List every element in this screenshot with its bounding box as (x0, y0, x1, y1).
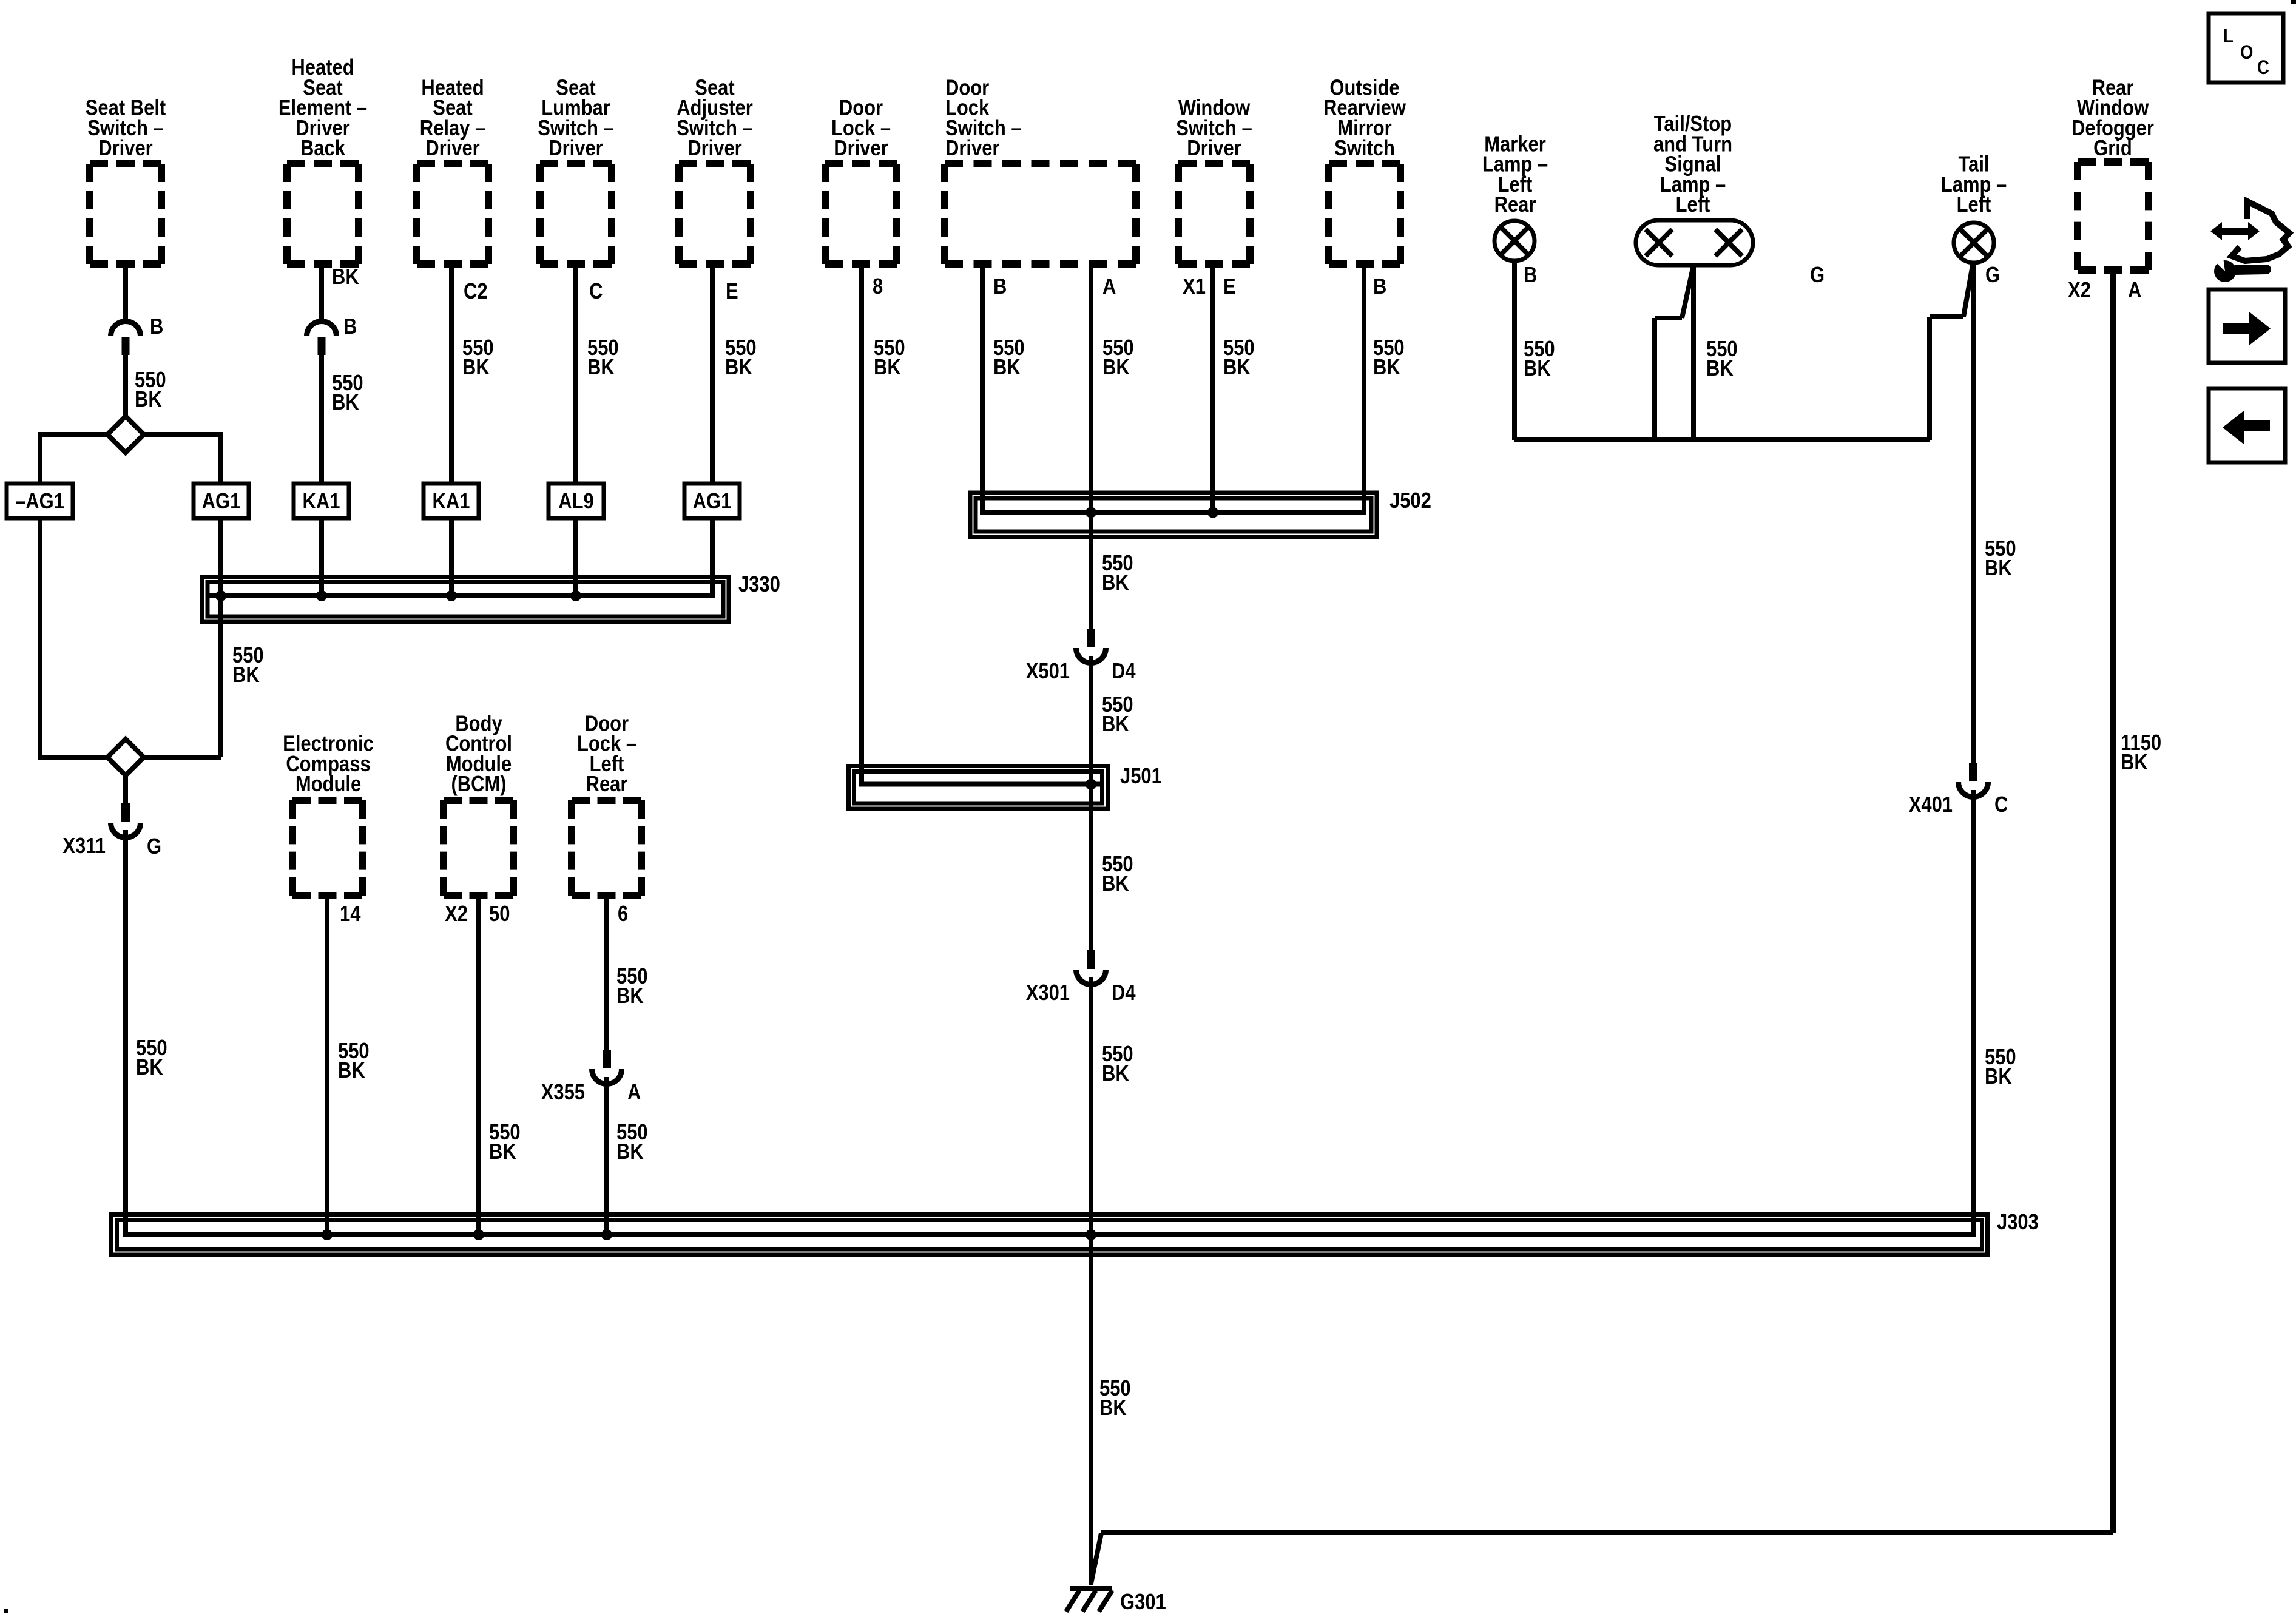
svg-text:Rear: Rear (586, 772, 628, 797)
svg-text:J501: J501 (1120, 765, 1162, 789)
svg-text:E: E (1223, 275, 1236, 299)
svg-text:X2: X2 (445, 902, 468, 927)
svg-text:Driver: Driver (834, 137, 888, 161)
legend LOC box (2209, 13, 2283, 83)
svg-text:Driver: Driver (425, 137, 479, 161)
wire: door lock left rear pin 6 down to X355 (604, 896, 609, 1051)
component box: Door Lock - Left Rear (572, 797, 641, 804)
svg-text:Driver: Driver (549, 137, 603, 161)
component box: Door Lock Switch - Driver (945, 160, 1136, 167)
svg-text:BK: BK (462, 356, 490, 380)
wire: J330 down to diamond 2 row (218, 596, 223, 757)
svg-text:BK: BK (1102, 356, 1130, 380)
svg-text:KA1: KA1 (303, 490, 340, 514)
wire: X501 to J501 (1089, 656, 1093, 951)
wire: seat lumbar switch pin C to AL9 (573, 264, 578, 482)
wire: right horizontal into diamond 2 (144, 755, 221, 760)
junction dot J330/AL9 (570, 590, 581, 601)
corner at left loop (38, 755, 42, 760)
svg-text:Switch: Switch (1334, 137, 1395, 161)
net code box KA1 (heated seat element) (294, 484, 349, 518)
component box: Body Control Module (BCM) (444, 797, 513, 804)
svg-text:–AG1: –AG1 (15, 490, 64, 514)
svg-text:Grid: Grid (2093, 137, 2132, 161)
wire: ground rail diagonal jog (1091, 1533, 1101, 1584)
splice pack J502 (970, 493, 1377, 537)
wire: diamond 1 right to AG1 (144, 434, 221, 482)
component box: Door Lock - Driver (825, 160, 897, 167)
svg-text:BK: BK (332, 391, 359, 415)
wire: heated seat element pin BK drop (319, 264, 324, 322)
connector X301 (1087, 950, 1095, 969)
svg-text:E: E (726, 280, 738, 304)
legend harness icon with double arrow and wrench (2210, 222, 2222, 240)
junction dot J501/A wire (1086, 779, 1096, 790)
svg-text:KA1: KA1 (433, 490, 470, 514)
svg-text:AL9: AL9 (558, 490, 593, 514)
page mark top right corner (2291, 0, 2296, 4)
splice diamond node 1 (107, 416, 144, 453)
svg-text:Module: Module (295, 772, 361, 797)
svg-text:BK: BK (616, 1140, 644, 1164)
svg-text:BK: BK (1985, 556, 2012, 581)
component box: Heated Seat Element - Driver Back (287, 160, 359, 167)
svg-text:Left: Left (1957, 193, 1991, 217)
svg-text:B: B (1524, 263, 1537, 288)
component box: Outside Rearview Mirror Switch (1329, 160, 1400, 167)
component box: Seat Adjuster Switch - Driver (679, 160, 751, 167)
wire: bottom ground rail to defogger wire (1101, 1530, 2113, 1535)
wire: heated seat relay pin C2 to KA1 (449, 264, 454, 482)
legend forward arrow box (2209, 289, 2285, 363)
svg-text:(BCM): (BCM) (451, 772, 506, 797)
svg-text:J303: J303 (1997, 1210, 2039, 1235)
net code box AG1 (seat adjuster) (684, 484, 740, 518)
connector X501 (1087, 629, 1095, 647)
component box: Window Switch - Driver (1178, 160, 1250, 167)
svg-text:B: B (343, 315, 357, 339)
svg-text:A: A (1102, 275, 1116, 299)
wire: -AG1 down to diamond 2 row (38, 518, 42, 757)
J303 bus (126, 790, 1973, 1235)
lamp: Tail/Stop and Turn Signal Lamp - Left (1636, 220, 1753, 265)
svg-text:BK: BK (874, 356, 901, 380)
svg-text:G: G (1810, 263, 1825, 288)
wire: door lock switch pin B down to J502 bus (982, 264, 1364, 513)
connector X401 (1969, 763, 1977, 781)
junction dot J330/KA1b (446, 590, 457, 601)
connector: in-line on seat belt wire (111, 322, 141, 337)
svg-text:BK: BK (1102, 1062, 1129, 1086)
component box: Heated Seat Relay - Driver (417, 160, 488, 167)
component box: Seat Belt Switch - Driver (90, 160, 161, 167)
component box: Rear Window Defogger Grid (2078, 158, 2149, 166)
svg-text:A: A (2128, 279, 2141, 303)
svg-text:BK: BK (489, 1140, 516, 1164)
svg-text:C: C (1994, 793, 2008, 817)
svg-text:X311: X311 (62, 834, 106, 859)
svg-text:BK: BK (1223, 356, 1251, 380)
wire: seat adjuster switch pin E to AG1 (710, 264, 715, 482)
wire: seat belt switch pin B drop (123, 264, 128, 322)
component box: Electronic Compass Module (292, 797, 362, 804)
svg-text:Rear: Rear (1494, 193, 1536, 217)
svg-text:BK: BK (135, 388, 162, 412)
splice pack J330 (202, 577, 729, 623)
wire: tail lamp G drop to X401 (1971, 263, 1976, 763)
svg-text:8: 8 (873, 275, 883, 299)
wire: diamond 2 down to X311 (123, 775, 128, 803)
svg-text:BK: BK (338, 1059, 365, 1083)
svg-text:50: 50 (489, 902, 510, 927)
svg-text:D4: D4 (1112, 981, 1136, 1005)
splice pack J501 (849, 766, 1108, 809)
wire: door lock switch pin A down to X501 (1089, 264, 1093, 629)
svg-text:14: 14 (340, 902, 361, 927)
svg-text:B: B (993, 275, 1007, 299)
wire: tail rail jog (1930, 314, 1963, 319)
svg-text:J502: J502 (1389, 489, 1431, 513)
connector X311 (121, 803, 130, 822)
svg-text:BK: BK (725, 356, 752, 380)
svg-text:G: G (1985, 263, 2000, 288)
junction dot J303/ground wire (1086, 1229, 1096, 1240)
svg-text:D4: D4 (1112, 660, 1136, 684)
wire: lamp ground rail (1514, 437, 1930, 442)
junction dot J502/E wire (1207, 507, 1218, 518)
svg-text:BK: BK (1706, 357, 1734, 381)
svg-text:X301: X301 (1026, 981, 1070, 1005)
splice diamond node 2 (107, 739, 144, 775)
lamp: Tail Lamp - Left (1954, 223, 1994, 263)
svg-text:BK: BK (1985, 1065, 2012, 1089)
svg-text:Driver: Driver (687, 137, 741, 161)
junction dot J330/AG1 (215, 590, 226, 601)
svg-text:BK: BK (616, 984, 644, 1008)
wire: KA1 (element) drop into J330 (319, 518, 324, 596)
svg-text:BK: BK (1524, 357, 1551, 381)
splice pack J303 (112, 1215, 1988, 1255)
component box: Seat Lumbar Switch - Driver (540, 160, 612, 167)
svg-text:X355: X355 (541, 1081, 585, 1105)
junction dot J303/door lock LR (601, 1229, 612, 1240)
svg-text:X2: X2 (2068, 279, 2091, 303)
svg-text:BK: BK (232, 663, 260, 687)
svg-text:C: C (589, 280, 603, 304)
wire: X311 down to J303 bus (123, 830, 128, 1235)
wire: tail/stop lamp G drop (1691, 263, 1696, 440)
wire: window switch pin E down to J502 bus (1210, 264, 1215, 513)
svg-text:Driver: Driver (98, 137, 152, 161)
net code box AG1 (194, 484, 249, 518)
svg-text:BK: BK (1099, 1396, 1127, 1420)
wire: connector to diamond 1 (123, 355, 128, 416)
net code box AL9 (549, 484, 604, 518)
wire: diamond 1 left to -AG1 (40, 434, 107, 482)
wire: AG1 drop into J330 (218, 518, 223, 596)
junction dot J303/BCM (473, 1229, 484, 1240)
svg-text:G: G (147, 835, 161, 859)
svg-text:AG1: AG1 (202, 490, 241, 514)
net code box -AG1 (7, 484, 73, 518)
svg-text:BK: BK (587, 356, 615, 380)
wire: BCM pin 50 down to J303 (476, 896, 481, 1235)
svg-text:Driver: Driver (1187, 137, 1241, 161)
wire: connector to KA1 (319, 355, 324, 482)
wire: defogger grid 1150 BK to ground rail (2110, 270, 2116, 1533)
svg-text:Back: Back (300, 137, 345, 161)
svg-text:C2: C2 (464, 280, 488, 304)
connector X355 (603, 1050, 611, 1068)
svg-text:BK: BK (1373, 356, 1400, 380)
svg-text:B: B (150, 315, 163, 339)
svg-text:G301: G301 (1120, 1590, 1166, 1615)
svg-text:6: 6 (618, 902, 628, 927)
svg-text:L: L (2223, 25, 2234, 47)
svg-text:C: C (2257, 57, 2269, 78)
svg-text:BK: BK (1102, 571, 1129, 595)
wire: marker lamp B drop (1512, 261, 1517, 440)
wire: marker rail diagonal (1682, 265, 1693, 318)
legend back arrow box (2209, 388, 2285, 462)
net code box KA1 (heated seat relay) (424, 484, 479, 518)
ground G301 (1070, 1586, 1112, 1591)
junction dot J502/A wire (1086, 507, 1096, 518)
wire: X301 down through J303 to ground (1089, 977, 1093, 1585)
svg-text:X501: X501 (1026, 660, 1070, 684)
svg-text:O: O (2240, 42, 2253, 63)
svg-text:Driver: Driver (945, 137, 999, 161)
svg-text:A: A (627, 1081, 641, 1105)
wire: AG1 (adjuster) drop and J330 bus (208, 518, 712, 596)
wire: door lock driver pin 8 down to J501 (862, 264, 1102, 785)
wire: KA1 (relay) drop into J330 (449, 518, 454, 596)
svg-text:BK: BK (993, 356, 1021, 380)
junction dot J330/KA1a (316, 590, 327, 601)
wire: left horizontal into diamond 2 (40, 755, 107, 760)
svg-text:Left: Left (1676, 193, 1710, 217)
wire: rail riser to tail lamp (1927, 317, 1932, 440)
svg-text:BK: BK (136, 1056, 163, 1080)
wire: ECM pin 14 down to J303 (325, 896, 329, 1235)
wire: marker rail riser (1652, 318, 1657, 440)
junction dot J303/ECM (322, 1229, 333, 1240)
svg-text:X401: X401 (1909, 793, 1953, 817)
lamp: Marker Lamp - Left Rear (1494, 221, 1535, 261)
wire: X355 down to J303 (604, 1077, 609, 1235)
svg-text:AG1: AG1 (693, 490, 732, 514)
svg-text:BK: BK (332, 265, 359, 289)
wire: AL9 drop into J330 (573, 518, 578, 596)
svg-text:X1: X1 (1183, 275, 1206, 299)
svg-text:BK: BK (1102, 872, 1129, 896)
wire: marker rail jog (1655, 316, 1682, 320)
svg-text:BK: BK (2121, 751, 2148, 775)
wire: X401 down to J303 bus (1971, 790, 1976, 1235)
wire: tail rail diagonal (1963, 265, 1973, 317)
svg-text:BK: BK (1102, 712, 1129, 737)
svg-text:J330: J330 (738, 573, 780, 597)
svg-text:B: B (1373, 275, 1386, 299)
page mark bottom left (4, 1609, 8, 1613)
connector: in-line on heated seat element wire (307, 322, 337, 337)
